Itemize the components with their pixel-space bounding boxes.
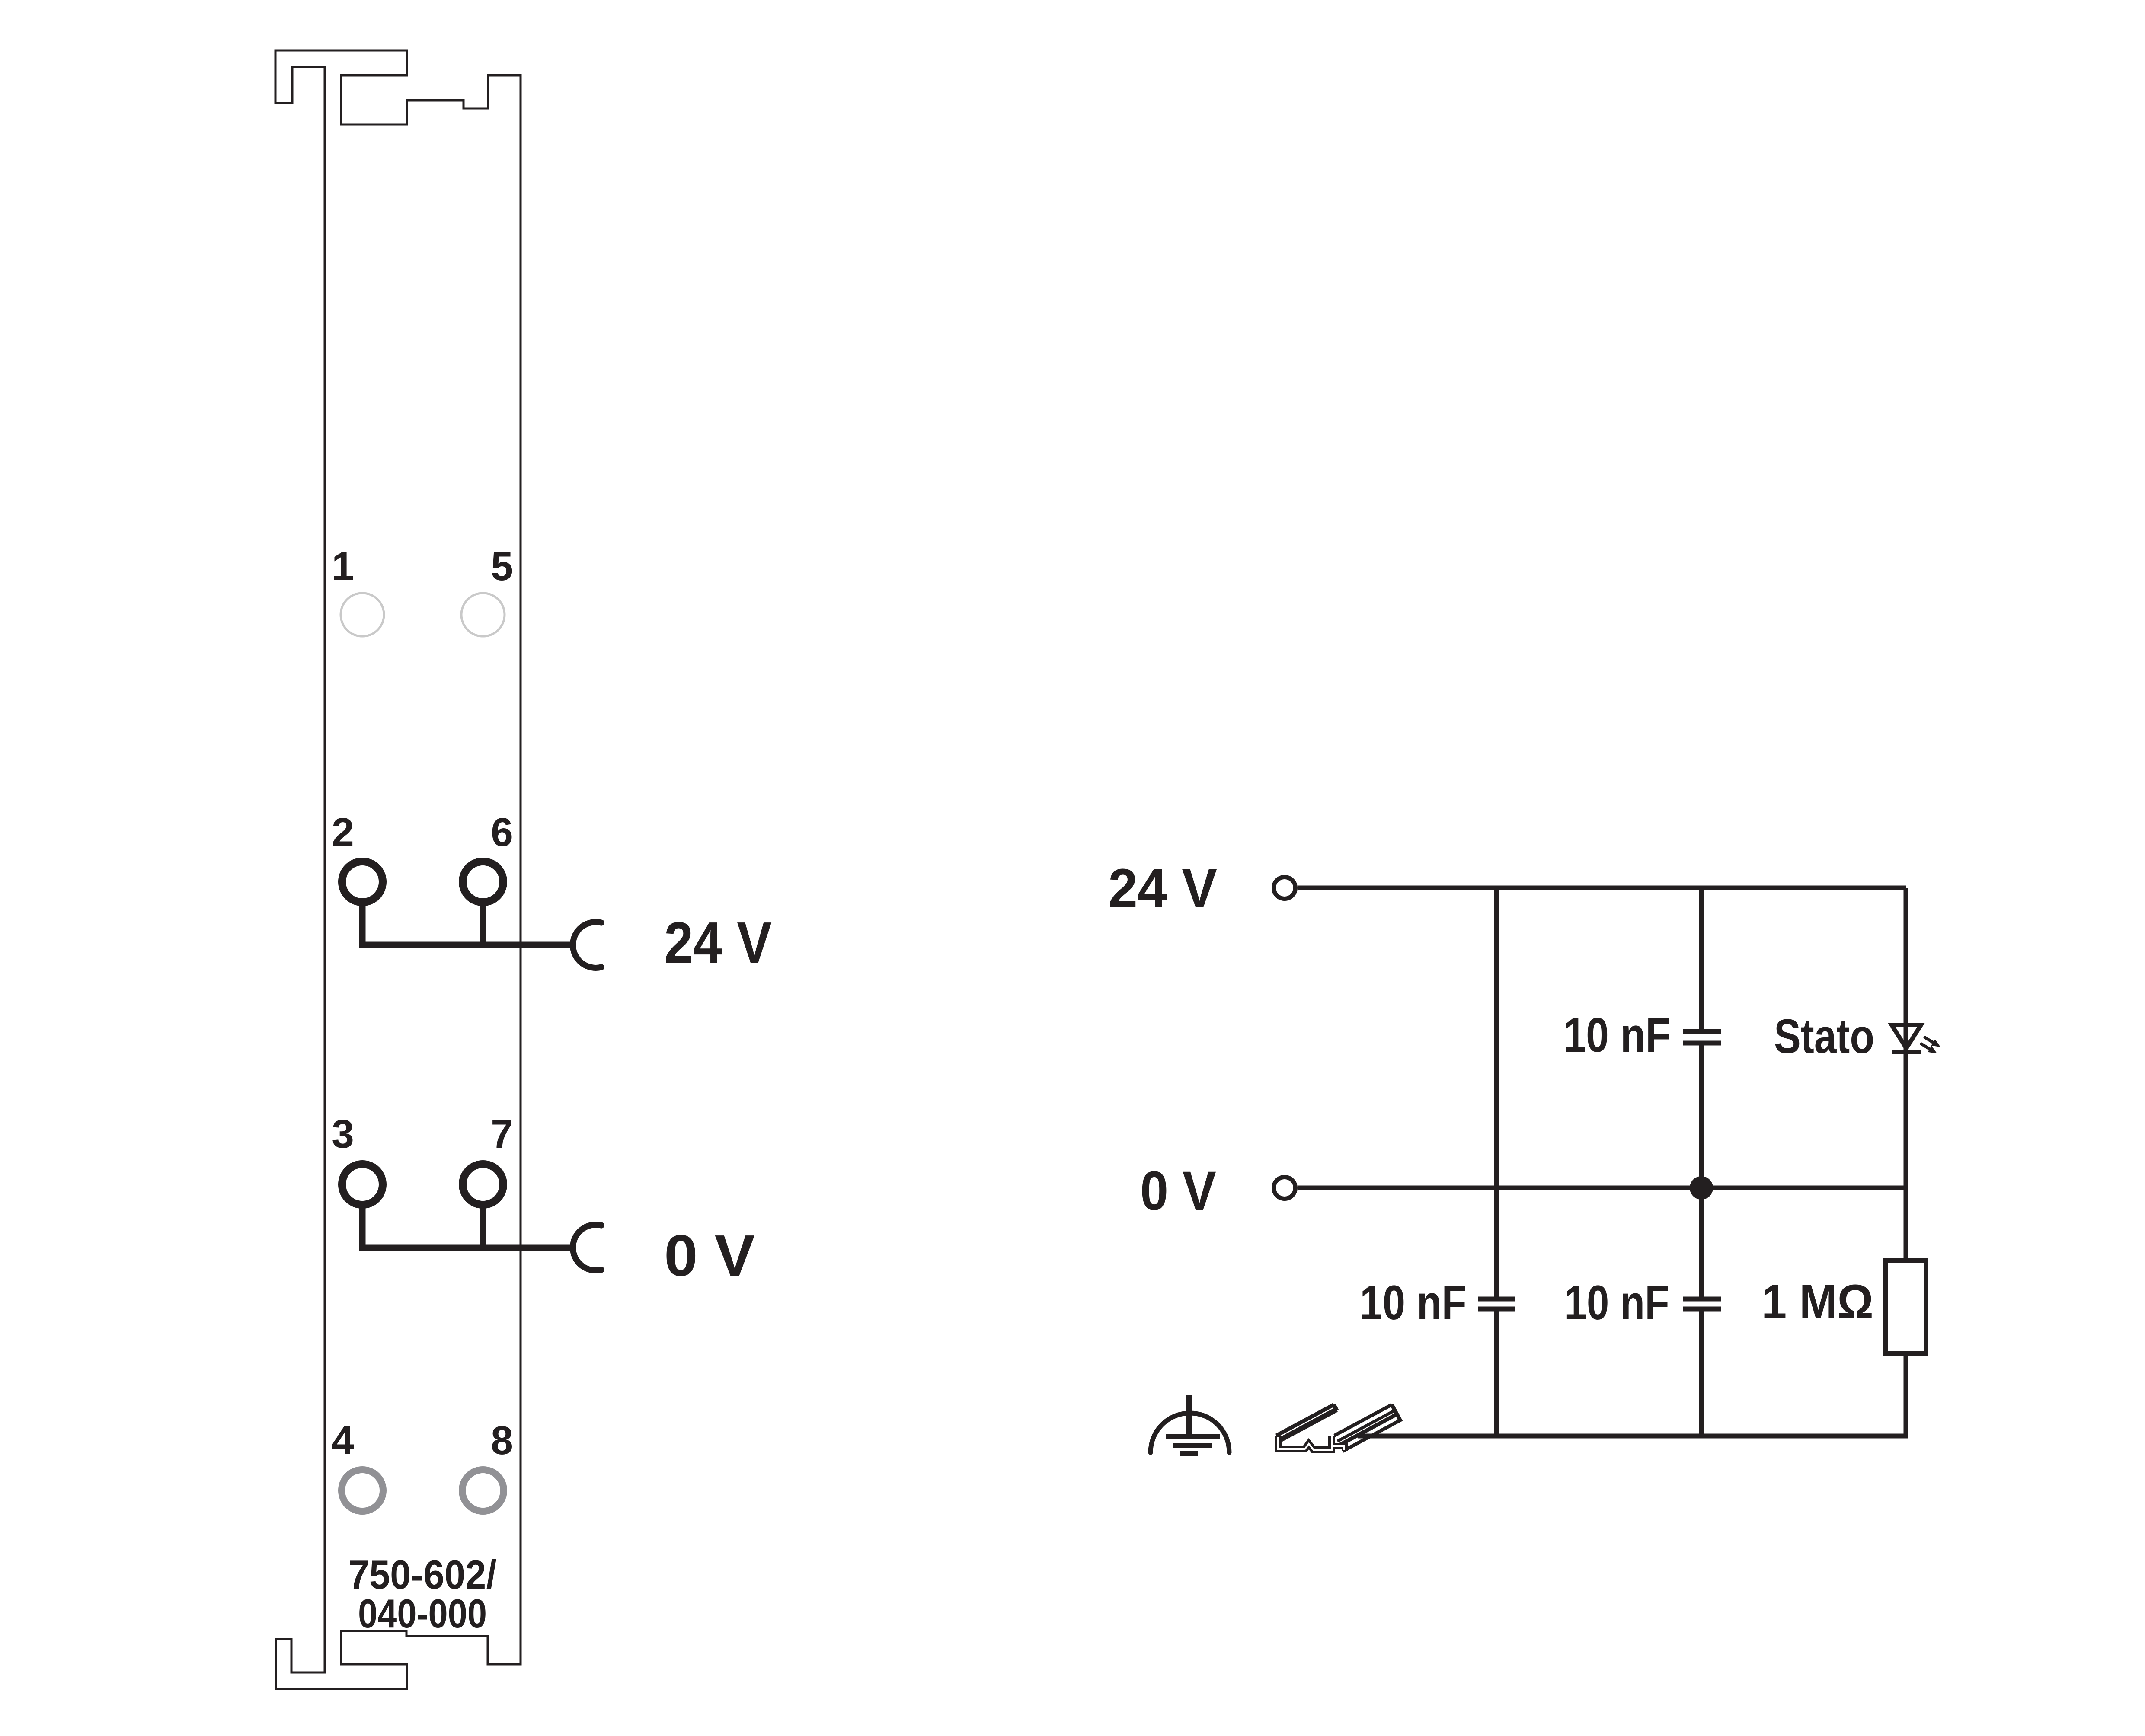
rail right wall outer top edge <box>1337 1410 1395 1442</box>
LED D1 emission arrow 2 <box>1921 1044 1937 1053</box>
LED D1 emission arrow 1 <box>1925 1037 1940 1047</box>
wire ground bus <box>1358 1434 1908 1439</box>
terminal 24V <box>1274 877 1295 899</box>
svg-text:3: 3 <box>332 1111 354 1156</box>
wire pin2 stub <box>359 903 366 945</box>
wire vertical branch 2 upper <box>1699 888 1704 1029</box>
clamp contact 24V <box>573 922 601 968</box>
rail right flange outer edge <box>1343 1420 1400 1452</box>
capacitor C3 10 nF plates (bottom) <box>1683 1297 1721 1302</box>
svg-text:0 V: 0 V <box>1140 1160 1216 1222</box>
module outline 750-602 <box>275 51 521 1689</box>
DIN rail carrier icon <box>1276 1405 1401 1452</box>
ground symbol <box>1151 1395 1229 1453</box>
svg-text:6: 6 <box>491 810 513 855</box>
wire 24V bus <box>359 942 573 948</box>
svg-text:1 MΩ: 1 MΩ <box>1761 1275 1873 1329</box>
svg-text:1: 1 <box>332 544 354 589</box>
rail left wall outer top edge <box>1276 1405 1334 1436</box>
svg-text:24 V: 24 V <box>664 910 772 975</box>
rail front cross-section white core <box>1278 1436 1332 1450</box>
wire 24V rail <box>1298 886 1906 890</box>
rail right flange corner edge <box>1339 1414 1397 1446</box>
LED D1 cathode bar <box>1892 1050 1921 1054</box>
pin 6 contact circle <box>463 862 503 902</box>
pin 7 contact circle <box>463 1164 503 1205</box>
LED D1 triangle <box>1892 1025 1921 1048</box>
rail right wall inner top edge <box>1334 1405 1392 1436</box>
rail right wall far end cap <box>1392 1405 1401 1422</box>
wire right vertical lower <box>1904 1353 1908 1436</box>
wire right vertical upper <box>1904 888 1908 1052</box>
wire pin3 stub <box>359 1206 366 1248</box>
pin 4 contact circle <box>342 1470 383 1511</box>
svg-text:0 V: 0 V <box>664 1223 755 1288</box>
rail left wall inner edge <box>1279 1410 1336 1441</box>
wire pin7 stub <box>480 1206 486 1248</box>
wire vertical branch 2 lower <box>1699 1311 1704 1436</box>
clamp contact 0V <box>573 1225 601 1270</box>
svg-text:040-000: 040-000 <box>358 1591 487 1636</box>
capacitor C2 10 nF plates (top) <box>1683 1029 1721 1034</box>
svg-text:10 nF: 10 nF <box>1360 1276 1467 1330</box>
svg-text:Stato: Stato <box>1774 1009 1874 1063</box>
svg-text:7: 7 <box>491 1111 513 1156</box>
wire vertical branch 1 upper <box>1494 888 1499 1297</box>
svg-text:10 nF: 10 nF <box>1564 1276 1669 1330</box>
svg-text:24 V: 24 V <box>1108 858 1217 919</box>
capacitor C1 10 nF plates <box>1478 1297 1515 1302</box>
pin 3 contact circle <box>342 1164 383 1205</box>
terminal 0V <box>1274 1177 1295 1199</box>
pin 2 contact circle <box>342 862 383 902</box>
svg-text:5: 5 <box>491 544 513 589</box>
wire right vertical middle <box>1904 1052 1908 1261</box>
wire vertical branch 1 lower <box>1494 1311 1499 1436</box>
pin 8 contact circle <box>462 1470 504 1511</box>
resistor R1 1 MOhm body <box>1886 1261 1926 1353</box>
rail left wall far end cap <box>1334 1405 1337 1410</box>
svg-text:8: 8 <box>491 1418 513 1463</box>
wire vertical branch 2 middle <box>1699 1045 1704 1297</box>
wire 0V rail <box>1298 1186 1906 1190</box>
svg-text:2: 2 <box>332 810 354 855</box>
rail front cross-section profile (black strip) <box>1278 1436 1332 1450</box>
wire pin6 stub <box>480 903 486 945</box>
svg-text:10 nF: 10 nF <box>1563 1008 1671 1062</box>
pin 5 contact circle <box>461 593 505 636</box>
junction node on 0V rail <box>1690 1176 1713 1200</box>
pin 1 contact circle <box>341 593 384 636</box>
svg-text:4: 4 <box>332 1418 354 1463</box>
rail front right flange step <box>1333 1446 1345 1451</box>
wire 0V bus <box>359 1245 573 1251</box>
